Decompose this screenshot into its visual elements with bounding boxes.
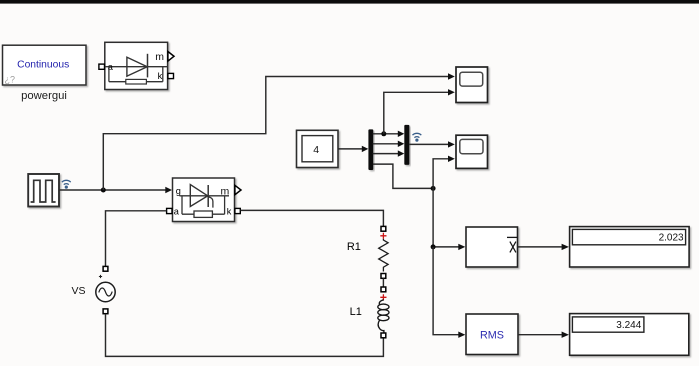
mean block bbox=[466, 227, 518, 267]
thyristor m output chevron bbox=[235, 185, 241, 194]
junction node measurement net bbox=[431, 186, 436, 191]
VS polarity mark bbox=[99, 275, 102, 278]
wire demux out3 to mux in3 bbox=[373, 153, 399, 155]
R1 top port square bbox=[381, 226, 386, 231]
arrow into scope2 input2 bbox=[448, 156, 455, 162]
arrow into thyristor g bbox=[165, 187, 172, 193]
diode triangle bbox=[127, 57, 147, 76]
R1 bottom port square bbox=[381, 274, 386, 279]
powergui block bbox=[3, 45, 87, 85]
svg-text:Continuous: Continuous bbox=[17, 60, 69, 71]
diode snubber bottom line bbox=[109, 81, 163, 83]
diode k port square bbox=[168, 73, 174, 78]
wire demux out4 down to junction net bbox=[373, 164, 433, 188]
diode a port square bbox=[99, 64, 105, 69]
AC voltage source VS bbox=[96, 266, 115, 313]
svg-text:g: g bbox=[176, 186, 181, 196]
VS top port square bbox=[103, 266, 108, 271]
svg-text:k: k bbox=[227, 207, 232, 217]
RMS block bbox=[466, 314, 518, 355]
R1 polarity plus (red) bbox=[380, 233, 386, 239]
thyristor gate hook bbox=[208, 197, 213, 208]
svg-text:2.023: 2.023 bbox=[659, 232, 684, 243]
diode snubber left drop bbox=[108, 67, 110, 82]
thyristor block bbox=[167, 178, 241, 222]
svg-text:R1: R1 bbox=[347, 241, 361, 253]
thyristor cathode bar bbox=[207, 185, 209, 207]
svg-text:VS: VS bbox=[71, 285, 85, 297]
wire pulse output to thyristor gate bbox=[59, 189, 166, 191]
L1 polarity plus (red) bbox=[380, 294, 386, 300]
arrow into display2 bbox=[562, 332, 569, 338]
svg-text:L1: L1 bbox=[350, 306, 362, 318]
display1 block bbox=[570, 227, 690, 267]
arrow into display1 bbox=[562, 244, 569, 250]
top black title bar bbox=[0, 0, 699, 4]
arrow into RMS bbox=[458, 332, 465, 338]
VS circle bbox=[96, 282, 115, 301]
wire mean to display1 bbox=[518, 246, 562, 248]
thyristor k port square bbox=[235, 208, 240, 213]
wire junction down to RMS input bbox=[433, 247, 458, 335]
wire demux out2 to mux in2 bbox=[373, 143, 399, 145]
wire mux output to scope2 input1 bbox=[409, 143, 448, 145]
wire RMS to display2 bbox=[518, 334, 562, 336]
thyristor internal upper line bbox=[180, 195, 230, 197]
mux bar bbox=[404, 125, 409, 165]
wire junction up to scope2 input2 bbox=[433, 159, 448, 189]
arrow into scope2 input1 bbox=[448, 141, 455, 147]
diode block U_D bbox=[99, 42, 174, 89]
wifi logging badge at pulse output bbox=[62, 180, 71, 188]
thyristor snubber bottom line bbox=[182, 213, 225, 215]
wire R1 to L1 bbox=[382, 278, 384, 287]
arrow into scope1 input2 bbox=[448, 89, 455, 95]
svg-text:k: k bbox=[158, 71, 163, 81]
pulse waveform icon bbox=[31, 180, 56, 202]
wire junction down to mean input bbox=[433, 188, 458, 247]
junction at pulse branch bbox=[101, 188, 106, 193]
constant block 4 bbox=[297, 130, 339, 167]
wire demux out1 to mux in1 bbox=[373, 133, 399, 135]
junction at mean branch bbox=[431, 244, 436, 249]
diode m output chevron bbox=[168, 52, 174, 62]
VS bottom port square bbox=[103, 309, 108, 314]
wire VS plus to thyristor a bbox=[106, 211, 167, 268]
scope2 block bbox=[456, 135, 488, 168]
inductor L1 coil bbox=[378, 300, 389, 333]
diode internal anode line bbox=[105, 66, 168, 68]
thyristor a port square bbox=[167, 208, 172, 213]
svg-text:¿?: ¿? bbox=[5, 75, 16, 85]
wifi logging badge at mux output bbox=[413, 133, 422, 141]
svg-text:3.244: 3.244 bbox=[616, 320, 641, 331]
VS sine wave bbox=[99, 288, 112, 296]
thyristor snubber right rise bbox=[224, 196, 226, 214]
pulse generator block bbox=[28, 174, 59, 207]
arrow into mean bbox=[458, 244, 465, 250]
svg-text:powergui: powergui bbox=[21, 90, 67, 102]
demux bar bbox=[368, 129, 373, 170]
diode snubber right rise bbox=[162, 67, 164, 82]
scope1 block bbox=[456, 67, 488, 103]
thyristor snubber left drop bbox=[181, 196, 183, 214]
wire VS minus to bottom rail to L1 bbox=[106, 314, 384, 357]
thyristor triangle bbox=[190, 185, 207, 207]
thyristor snubber resistor box bbox=[194, 211, 212, 217]
svg-text:m: m bbox=[221, 185, 230, 197]
wire thyristor k to R1 bbox=[241, 210, 384, 226]
L1 bottom port square bbox=[381, 333, 386, 338]
diode snubber resistor box bbox=[126, 79, 147, 84]
resistor R1 zigzag bbox=[379, 239, 388, 272]
arrow into scope1 input1 bbox=[448, 73, 455, 79]
svg-text:a: a bbox=[174, 207, 180, 217]
diode cathode bar bbox=[147, 54, 149, 78]
svg-text:4: 4 bbox=[313, 144, 319, 156]
L1 top port square bbox=[381, 287, 386, 292]
wire constant 4 to demux bbox=[338, 148, 362, 150]
arrow into demux bbox=[362, 146, 369, 152]
svg-text:m: m bbox=[155, 51, 164, 63]
junction on demux out1 bbox=[381, 131, 386, 136]
display2 block bbox=[570, 314, 689, 356]
wire junction up to scope1 input2 bbox=[384, 92, 448, 134]
svg-text:RMS: RMS bbox=[480, 330, 504, 342]
wire pulse branch up and right to scope1 input1 bbox=[103, 77, 448, 191]
